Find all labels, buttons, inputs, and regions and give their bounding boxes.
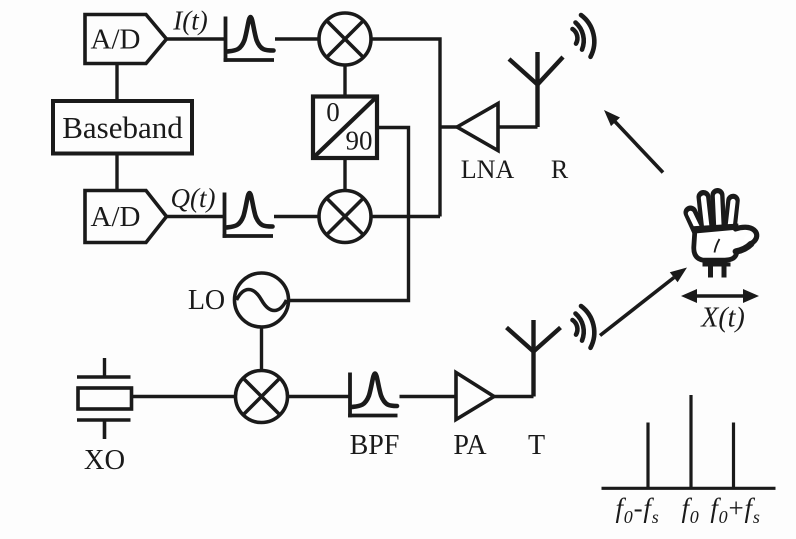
wire LNA to RX antenna xyxy=(498,125,538,128)
wire LO to mixer M3 xyxy=(260,327,263,371)
middle finger xyxy=(718,195,720,229)
wire mixer M2 to junction xyxy=(371,215,440,218)
wire PA to TX antenna xyxy=(494,395,534,398)
baseband processor xyxy=(53,101,192,154)
ring finger xyxy=(704,197,708,229)
RX radiated waves xyxy=(573,15,595,57)
mixer M2 (Q) xyxy=(319,191,371,243)
wire BPF to PA xyxy=(400,395,457,398)
wire XO to mixer M3 xyxy=(132,395,236,398)
wire mixer M3 to BPF xyxy=(288,395,351,398)
motion double arrow X(t) xyxy=(681,289,759,303)
TX antenna T xyxy=(507,320,561,397)
PA amplifier xyxy=(456,373,494,420)
svg-text:T: T xyxy=(528,430,545,461)
knuckle line xyxy=(695,227,739,231)
low-pass filter (Q channel) xyxy=(223,193,273,238)
wire 0/90 splitter to mixer M2 xyxy=(343,158,346,191)
spectrum baseline xyxy=(602,487,776,490)
spectrum line f0 xyxy=(689,395,692,488)
LNA amplifier xyxy=(457,104,498,151)
svg-text:A/D: A/D xyxy=(91,201,141,233)
svg-text:Q(t): Q(t) xyxy=(171,183,216,213)
svg-text:A/D: A/D xyxy=(91,24,141,56)
svg-text:PA: PA xyxy=(453,430,487,461)
pinky finger xyxy=(691,213,699,231)
band-pass filter BPF xyxy=(348,373,397,418)
thumb lower curl xyxy=(736,244,751,252)
wire mixer M1 to junction xyxy=(371,39,440,217)
index finger xyxy=(730,201,733,229)
palm crease xyxy=(715,239,720,253)
wire filter to mixer M2 xyxy=(274,215,319,218)
wire 0/90 splitter to LO line xyxy=(289,128,409,301)
svg-text:0: 0 xyxy=(326,97,340,127)
wire A/D2 to filter xyxy=(167,215,225,218)
svg-text:LNA: LNA xyxy=(461,155,515,184)
RX antenna R xyxy=(509,52,563,127)
0/90 phase splitter xyxy=(313,97,377,159)
wrist cuff xyxy=(703,263,731,267)
palm outline xyxy=(694,226,738,260)
svg-text:Baseband: Baseband xyxy=(62,110,183,145)
crystal oscillator XO xyxy=(77,358,132,439)
A/D converter (Q channel) xyxy=(85,191,167,243)
svg-text:X(t): X(t) xyxy=(700,303,745,334)
wire mixer M1 to 0/90 splitter xyxy=(343,65,346,97)
A/D converter (I channel) xyxy=(85,15,167,64)
arrow reflected signal to R xyxy=(604,110,663,173)
mixer M3 (TX upconvert) xyxy=(236,371,288,423)
TX radiated waves xyxy=(573,306,595,348)
arrow TX signal to hand xyxy=(600,268,687,336)
wire A/D1 to filter xyxy=(167,37,226,40)
spectrum line f0+fs xyxy=(732,423,735,489)
wire filter to mixer M1 xyxy=(275,37,319,40)
thumb slot highlight xyxy=(743,233,754,243)
thumb top edge and tip xyxy=(736,227,757,242)
palm fill xyxy=(694,226,738,260)
svg-text:XO: XO xyxy=(84,445,125,476)
LO local oscillator xyxy=(235,273,289,327)
hand target xyxy=(691,195,757,278)
svg-text:LO: LO xyxy=(188,285,225,316)
wire junction to LNA output xyxy=(440,125,457,128)
svg-text:BPF: BPF xyxy=(350,430,400,461)
svg-text:R: R xyxy=(551,155,569,184)
low-pass filter (I channel) xyxy=(224,17,274,62)
svg-text:90: 90 xyxy=(346,126,373,156)
mixer M1 (I) xyxy=(319,13,371,65)
spectrum line f0-fs xyxy=(646,423,649,489)
wire baseband to A/D2 xyxy=(115,154,118,191)
svg-text:I(t): I(t) xyxy=(172,6,207,36)
wire from A/D2 baseband link xyxy=(115,64,118,102)
